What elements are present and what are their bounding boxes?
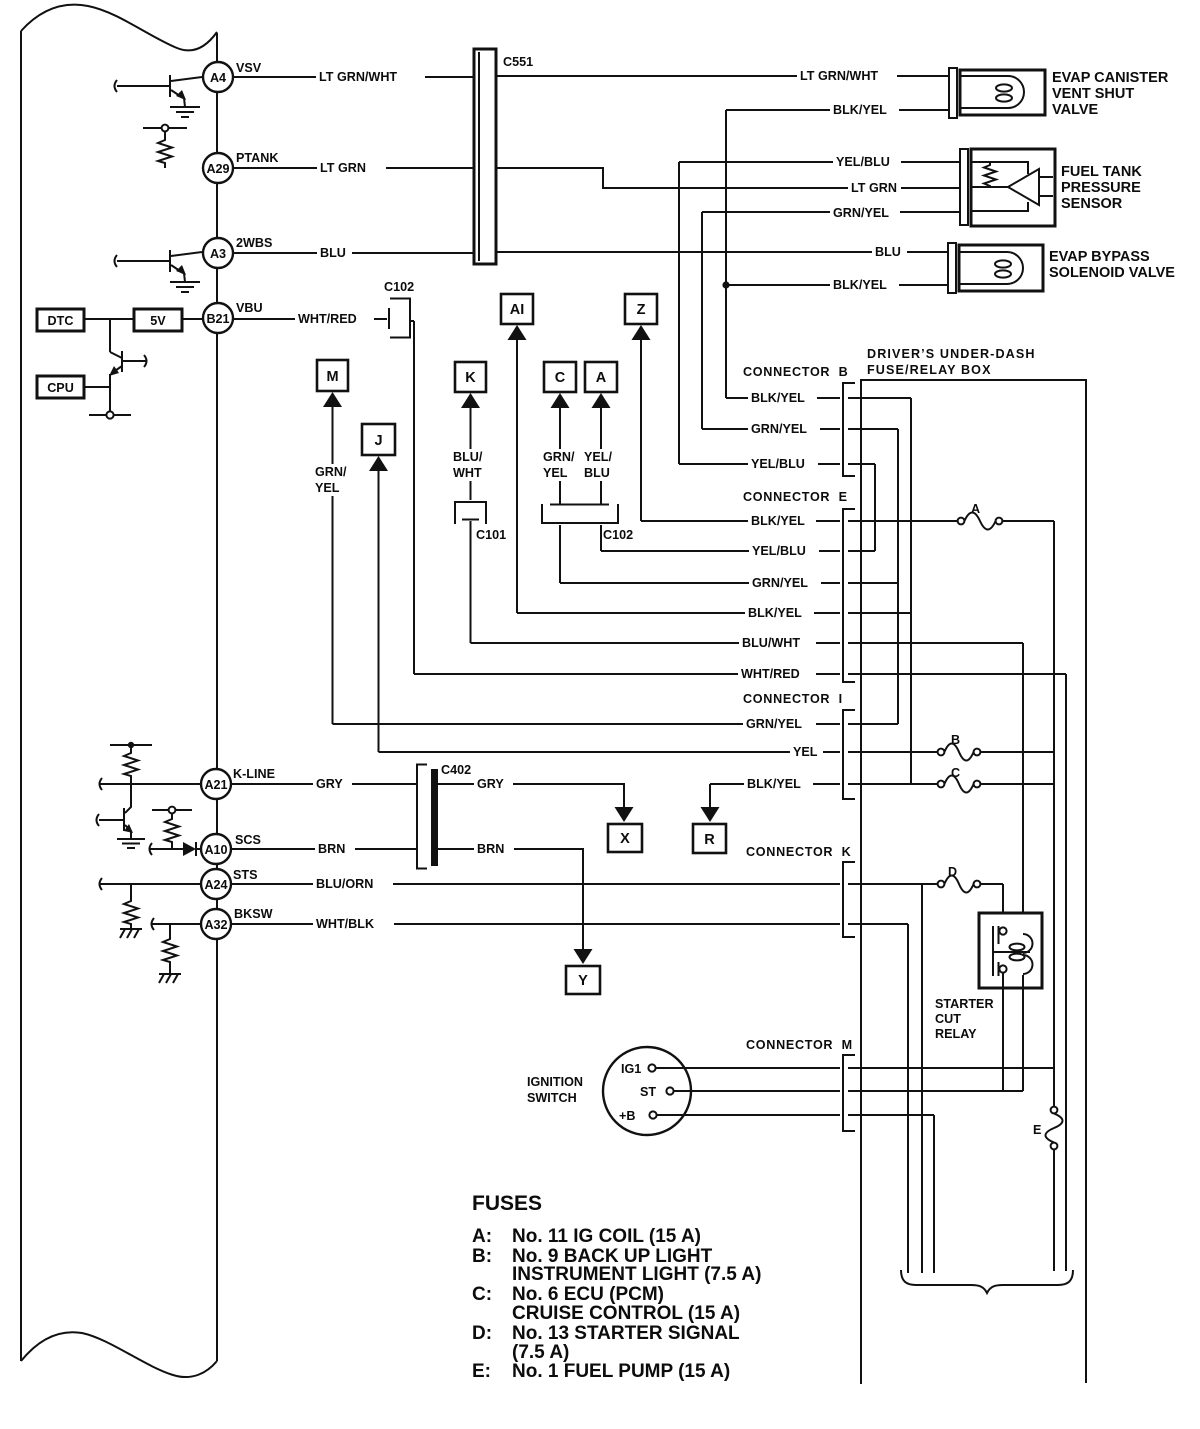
svg-text:B21: B21 bbox=[206, 312, 229, 326]
EVAP canister vent shut valve bbox=[949, 68, 1169, 118]
pin A32 (BKSW) bbox=[201, 907, 273, 939]
wire LT GRN (A29 to C551) bbox=[233, 161, 474, 175]
destination box K bbox=[455, 362, 486, 408]
svg-text:STS: STS bbox=[233, 868, 258, 882]
fuse A bbox=[958, 502, 1054, 530]
wire WHT/BLK (A32 to connector K) bbox=[231, 917, 840, 931]
svg-text:WHT: WHT bbox=[453, 466, 482, 480]
svg-text:A21: A21 bbox=[204, 778, 227, 792]
svg-text:R: R bbox=[704, 832, 715, 848]
connector C102 (lower) bbox=[542, 504, 633, 542]
svg-text:RELAY: RELAY bbox=[935, 1027, 977, 1041]
ECM left border wire bbox=[20, 31, 22, 1361]
ECM bottom torn-edge wave bbox=[21, 1332, 217, 1377]
wire BLK/YEL vertical (x726) bbox=[725, 110, 727, 398]
svg-text:Z: Z bbox=[637, 302, 646, 318]
svg-text:C102: C102 bbox=[384, 280, 414, 294]
destination box X bbox=[608, 807, 642, 852]
wire GRY (A21 to C402) bbox=[231, 777, 417, 791]
svg-text:SCS: SCS bbox=[235, 833, 261, 847]
ground (Q4 emitter) bbox=[117, 839, 145, 848]
svg-text:CONNECTOR B: CONNECTOR B bbox=[743, 365, 848, 379]
wire BLU/ORN (A24 to connector K) bbox=[231, 877, 840, 891]
wire IG1 row bbox=[656, 1067, 1054, 1069]
5V regulator box bbox=[134, 309, 182, 331]
svg-text:YEL/BLU: YEL/BLU bbox=[752, 544, 806, 558]
svg-text:K-LINE: K-LINE bbox=[233, 767, 275, 781]
wire CPU to node bbox=[84, 386, 110, 388]
svg-text:K: K bbox=[465, 370, 476, 386]
svg-text:SENSOR: SENSOR bbox=[1061, 196, 1123, 212]
svg-text:GRN/YEL: GRN/YEL bbox=[751, 422, 807, 436]
wire GRN/YEL chain vertical (x898) bbox=[897, 429, 899, 724]
wire LT GRN (C551 to sensor, stepped) bbox=[496, 168, 962, 195]
wire BLK/YEL (Z down to fuse A row) bbox=[640, 338, 642, 521]
svg-text:FUEL TANK: FUEL TANK bbox=[1061, 164, 1142, 180]
ground (Q2 emitter) bbox=[170, 282, 200, 292]
wire GRN/YEL (connector B row) bbox=[702, 422, 898, 436]
svg-text:CONNECTOR I: CONNECTOR I bbox=[743, 692, 843, 706]
svg-text:C: C bbox=[555, 370, 566, 386]
wire branch down from DTC line bbox=[109, 319, 111, 352]
svg-text:IG1: IG1 bbox=[621, 1062, 641, 1076]
svg-text:D:: D: bbox=[472, 1323, 492, 1344]
connector C402 bbox=[417, 763, 471, 869]
pin B21 (VBU) bbox=[203, 301, 263, 333]
svg-text:A:: A: bbox=[472, 1226, 492, 1247]
wire BLU/WHT (C101 down to connector E row) bbox=[470, 546, 472, 643]
destination box AI bbox=[501, 294, 533, 340]
DRIVER'S UNDER-DASH FUSE/RELAY BOX title bbox=[867, 347, 1036, 377]
wire BLK/YEL (AI down to connector E row) bbox=[516, 338, 518, 613]
svg-text:DTC: DTC bbox=[48, 314, 74, 328]
wire GRN/YEL (connector E row) bbox=[560, 576, 898, 590]
destination box M bbox=[317, 360, 348, 407]
wire BLU/ORN (into box, fuse D feed) bbox=[848, 883, 937, 885]
svg-text:J: J bbox=[374, 433, 382, 449]
wire BKSW row bbox=[152, 918, 202, 930]
fuse C bbox=[938, 766, 1054, 793]
fuse B bbox=[938, 733, 1054, 761]
svg-text:YEL: YEL bbox=[315, 481, 340, 495]
pin A4 (VSV) bbox=[203, 61, 262, 92]
svg-text:WHT/RED: WHT/RED bbox=[298, 312, 357, 326]
wire BLK/YEL (vent shut valve) bbox=[726, 103, 949, 117]
destination box Z bbox=[625, 294, 657, 340]
svg-text:FUSES: FUSES bbox=[472, 1192, 542, 1215]
svg-text:GRY: GRY bbox=[477, 777, 504, 791]
svg-text:YEL/: YEL/ bbox=[584, 450, 612, 464]
svg-text:DRIVER’S UNDER-DASH: DRIVER’S UNDER-DASH bbox=[867, 347, 1036, 361]
transistor Q1 (VSV driver) bbox=[115, 75, 203, 107]
svg-text:VSV: VSV bbox=[236, 61, 262, 75]
fuel tank pressure sensor bbox=[960, 149, 1142, 226]
svg-text:C102: C102 bbox=[603, 528, 633, 542]
wire BLK/YEL (connector I row, fuse C feed, to R) bbox=[710, 777, 937, 808]
svg-text:GRY: GRY bbox=[316, 777, 343, 791]
wire YEL/BLU vertical (x679) bbox=[678, 162, 680, 464]
CPU box bbox=[37, 376, 84, 398]
ECM top torn-edge wave bbox=[21, 5, 217, 51]
svg-text:LT GRN: LT GRN bbox=[320, 161, 366, 175]
transistor Q3 (backup power) bbox=[109, 351, 147, 412]
wire GRN/YEL (connector I row) bbox=[333, 717, 899, 731]
wire fuse D output to relay bbox=[1002, 884, 1004, 928]
wire LT GRN/WHT (A4 to C551) bbox=[233, 70, 474, 84]
wire WHT/BLK (into box) bbox=[848, 923, 908, 925]
svg-text:No. 11 IG COIL (15 A): No. 11 IG COIL (15 A) bbox=[512, 1226, 701, 1247]
wire YEL (connector I row, fuse B feed) bbox=[379, 745, 938, 759]
pin A21 (K-LINE) bbox=[201, 767, 275, 799]
svg-text:BLK/YEL: BLK/YEL bbox=[751, 514, 805, 528]
chassis ground (STS) bbox=[120, 929, 142, 938]
svg-text:YEL: YEL bbox=[793, 745, 818, 759]
svg-text:Y: Y bbox=[578, 973, 588, 989]
wire GRN/YEL (sensor) bbox=[702, 206, 962, 220]
svg-text:BLU/: BLU/ bbox=[453, 450, 483, 464]
wire BLU (A3 to C551) bbox=[233, 246, 474, 260]
wire YEL/BLU chain vertical (x875) bbox=[874, 464, 876, 551]
svg-text:CONNECTOR E: CONNECTOR E bbox=[743, 490, 848, 504]
connector C101 bbox=[455, 502, 506, 546]
wire WHT/RED vertical (x1066) bbox=[1065, 674, 1067, 1271]
wire LT GRN/WHT (C551 to valve) bbox=[496, 69, 949, 83]
connector K bracket bbox=[843, 862, 855, 937]
svg-text:CUT: CUT bbox=[935, 1012, 961, 1026]
resistor R2 (K-LINE pull-up) with junction dot bbox=[110, 742, 152, 784]
wire GRN/YEL (C102 to connector E row) bbox=[559, 525, 561, 583]
transistor Q4 (K-LINE) bbox=[97, 784, 134, 839]
chassis ground (BKSW) bbox=[159, 974, 181, 983]
connector E bracket bbox=[843, 509, 855, 682]
ECM/PCM left boundary (torn edge) bbox=[21, 5, 217, 1377]
fuse/relay box outline bbox=[861, 380, 1086, 1384]
ECM pin column wire bbox=[216, 33, 218, 1361]
svg-text:SWITCH: SWITCH bbox=[527, 1091, 577, 1105]
svg-text:A10: A10 bbox=[204, 843, 227, 857]
svg-text:BLK/YEL: BLK/YEL bbox=[833, 103, 887, 117]
svg-text:A29: A29 bbox=[206, 162, 229, 176]
svg-text:A4: A4 bbox=[210, 71, 226, 85]
wire GRN/YEL vertical (x702) bbox=[701, 212, 703, 429]
svg-text:WHT/BLK: WHT/BLK bbox=[316, 917, 374, 931]
svg-text:No. 6 ECU (PCM): No. 6 ECU (PCM) bbox=[512, 1284, 664, 1305]
fuse E bbox=[1033, 1107, 1063, 1150]
brace (to other circuits) bbox=[901, 1270, 1073, 1293]
connector C102 half (WHT/RED) bbox=[384, 280, 414, 338]
wire SCS row bbox=[150, 843, 185, 855]
wire WHT/RED vertical down to connector E bbox=[413, 321, 415, 674]
svg-text:No. 13 STARTER SIGNAL: No. 13 STARTER SIGNAL bbox=[512, 1323, 740, 1344]
svg-text:VENT SHUT: VENT SHUT bbox=[1052, 86, 1134, 102]
wire WHT/RED (connector E row) bbox=[414, 667, 1066, 681]
wire BLK/YEL chain vertical (x911) bbox=[910, 398, 912, 784]
svg-text:GRN/YEL: GRN/YEL bbox=[746, 717, 802, 731]
svg-text:No. 1 FUEL PUMP (15 A): No. 1 FUEL PUMP (15 A) bbox=[512, 1361, 730, 1382]
wire +B branch down (x934) bbox=[933, 1115, 935, 1273]
svg-text:VALVE: VALVE bbox=[1052, 102, 1099, 118]
svg-text:YEL/BLU: YEL/BLU bbox=[751, 457, 805, 471]
svg-text:CRUISE CONTROL (15 A): CRUISE CONTROL (15 A) bbox=[512, 1303, 740, 1324]
svg-text:FUSE/RELAY BOX: FUSE/RELAY BOX bbox=[867, 363, 992, 377]
pin A10 (SCS) bbox=[201, 833, 261, 864]
svg-text:C:: C: bbox=[472, 1284, 492, 1305]
wire YEL/BLU (sensor) bbox=[679, 155, 961, 169]
svg-text:IGNITION: IGNITION bbox=[527, 1075, 583, 1089]
ignition switch bbox=[527, 1047, 691, 1135]
svg-text:A32: A32 bbox=[204, 918, 227, 932]
wire GRN/YEL (M to connector I) bbox=[315, 405, 347, 724]
resistor R5 (BKSW) bbox=[163, 924, 177, 974]
svg-text:5V: 5V bbox=[150, 314, 166, 328]
EVAP bypass solenoid valve bbox=[948, 243, 1175, 293]
wire WHT/BLK down (x908) bbox=[907, 924, 909, 1273]
svg-text:CONNECTOR M: CONNECTOR M bbox=[746, 1038, 853, 1052]
svg-text:INSTRUMENT LIGHT (7.5 A): INSTRUMENT LIGHT (7.5 A) bbox=[512, 1264, 761, 1285]
svg-text:LT GRN/WHT: LT GRN/WHT bbox=[800, 69, 878, 83]
connector C551 bbox=[474, 49, 533, 264]
svg-text:C551: C551 bbox=[503, 55, 533, 69]
pin A29 (PTANK) bbox=[203, 151, 278, 183]
svg-text:BRN: BRN bbox=[477, 842, 504, 856]
wire BLK/YEL (bypass valve) with junction bbox=[722, 278, 948, 292]
wire ST row bbox=[674, 1090, 1023, 1092]
svg-text:2WBS: 2WBS bbox=[236, 236, 272, 250]
svg-text:BLU: BLU bbox=[584, 466, 610, 480]
svg-text:PTANK: PTANK bbox=[236, 151, 278, 165]
svg-text:LT GRN: LT GRN bbox=[851, 181, 897, 195]
destination box Y bbox=[566, 949, 600, 994]
fuse D bbox=[938, 865, 1003, 893]
svg-text:A3: A3 bbox=[210, 247, 226, 261]
transistor Q2 (2WBS driver) bbox=[115, 250, 203, 282]
connector B bracket bbox=[843, 383, 855, 476]
svg-text:BLK/YEL: BLK/YEL bbox=[747, 777, 801, 791]
svg-text:YEL/BLU: YEL/BLU bbox=[836, 155, 890, 169]
DTC box bbox=[37, 309, 84, 331]
starter cut relay bbox=[979, 913, 1042, 988]
svg-text:WHT/RED: WHT/RED bbox=[741, 667, 800, 681]
connector I bracket bbox=[843, 710, 855, 799]
svg-text:A24: A24 bbox=[204, 878, 227, 892]
svg-text:SOLENOID VALVE: SOLENOID VALVE bbox=[1049, 265, 1175, 281]
svg-text:YEL: YEL bbox=[543, 466, 568, 480]
wire YEL (J to connector I) bbox=[378, 469, 380, 752]
wire BLU/WHT (K to C101) bbox=[453, 406, 483, 500]
wire BLU/WHT to relay coil (x1023) bbox=[1022, 643, 1024, 934]
destination box R bbox=[693, 807, 726, 853]
wire 5V to B21 bbox=[182, 318, 203, 320]
wire BLK/YEL (connector B row) bbox=[726, 391, 911, 405]
wire BLU (C551 to bypass valve) bbox=[496, 245, 948, 259]
wire WHT/RED (B21 to C102) bbox=[233, 312, 387, 326]
destination box A bbox=[585, 362, 617, 408]
svg-text:PRESSURE: PRESSURE bbox=[1061, 180, 1141, 196]
svg-text:ST: ST bbox=[640, 1085, 656, 1099]
destination box C bbox=[544, 362, 576, 408]
svg-text:VBU: VBU bbox=[236, 301, 263, 315]
resistor R1 (PTANK pull-up) bbox=[143, 125, 187, 168]
wire BRN (C402 to Y) bbox=[438, 842, 583, 950]
wire GRN/YEL (C to C102) bbox=[543, 406, 575, 504]
svg-text:BLU/ORN: BLU/ORN bbox=[316, 877, 373, 891]
svg-text:C402: C402 bbox=[441, 763, 471, 777]
connector M bracket bbox=[843, 1055, 855, 1131]
wire K-LINE row bbox=[100, 778, 202, 790]
svg-text:GRN/: GRN/ bbox=[315, 465, 347, 479]
svg-text:(7.5 A): (7.5 A) bbox=[512, 1342, 569, 1363]
svg-text:STARTER: STARTER bbox=[935, 997, 994, 1011]
svg-text:EVAP CANISTER: EVAP CANISTER bbox=[1052, 70, 1169, 86]
svg-text:CPU: CPU bbox=[47, 381, 74, 395]
wire relay switch to ST row bbox=[1002, 972, 1004, 1091]
node: switch contact with open circle bbox=[89, 411, 131, 418]
wire relay coil to ST row bbox=[1022, 975, 1024, 1091]
svg-text:BLK/YEL: BLK/YEL bbox=[748, 606, 802, 620]
svg-text:BKSW: BKSW bbox=[234, 907, 273, 921]
wire YEL/BLU (connector E row) bbox=[601, 544, 875, 558]
wire GRY (C402 to X) bbox=[438, 777, 624, 808]
wire DTC to 5V bbox=[84, 318, 134, 320]
svg-text:BRN: BRN bbox=[318, 842, 345, 856]
resistor R3 (SCS pull-up) bbox=[152, 807, 192, 849]
pin A3 (2WBS) bbox=[203, 236, 272, 268]
FUSES legend bbox=[472, 1192, 761, 1382]
svg-text:GRN/YEL: GRN/YEL bbox=[752, 576, 808, 590]
wire YEL/BLU (A to C102) bbox=[584, 406, 612, 504]
svg-text:BLU: BLU bbox=[875, 245, 901, 259]
resistor R4 (STS) bbox=[124, 884, 138, 929]
svg-text:+B: +B bbox=[619, 1109, 635, 1123]
svg-text:E: E bbox=[1033, 1123, 1041, 1137]
svg-text:GRN/YEL: GRN/YEL bbox=[833, 206, 889, 220]
svg-text:BLK/YEL: BLK/YEL bbox=[751, 391, 805, 405]
wire STS row bbox=[100, 878, 202, 890]
svg-text:EVAP BYPASS: EVAP BYPASS bbox=[1049, 249, 1150, 265]
ground (Q1 emitter) bbox=[170, 107, 200, 117]
svg-text:C101: C101 bbox=[476, 528, 506, 542]
wire BLU/WHT (connector E row) bbox=[471, 636, 1024, 650]
wire BRN (A10 to C402) bbox=[231, 842, 417, 856]
svg-text:E:: E: bbox=[472, 1361, 491, 1382]
diode D1 (SCS) bbox=[183, 842, 201, 856]
wire BLK/YEL (connector E row, fuse A feed) bbox=[641, 514, 957, 528]
STARTER CUT RELAY label bbox=[935, 997, 994, 1041]
wire YEL/BLU (connector B row) bbox=[679, 457, 875, 471]
wire +B row bbox=[657, 1114, 934, 1116]
svg-text:M: M bbox=[326, 369, 338, 385]
destination box J bbox=[362, 424, 395, 471]
wire BLU/ORN branch down (x922) bbox=[921, 884, 923, 1273]
svg-text:LT GRN/WHT: LT GRN/WHT bbox=[319, 70, 397, 84]
wire fuse E down to brace bbox=[1053, 1150, 1055, 1271]
svg-text:X: X bbox=[620, 831, 630, 847]
svg-text:BLK/YEL: BLK/YEL bbox=[833, 278, 887, 292]
svg-text:GRN/: GRN/ bbox=[543, 450, 575, 464]
svg-text:BLU/WHT: BLU/WHT bbox=[742, 636, 800, 650]
pin A24 (STS) bbox=[201, 868, 258, 899]
svg-text:AI: AI bbox=[510, 302, 525, 318]
svg-text:A: A bbox=[596, 370, 607, 386]
svg-text:BLU: BLU bbox=[320, 246, 346, 260]
wire IG1 feed vertical (x1054, fuses A/B/C to E) bbox=[1053, 521, 1055, 1106]
wire BLK/YEL (connector E row 2) bbox=[517, 606, 911, 620]
svg-text:B:: B: bbox=[472, 1246, 492, 1267]
wire YEL/BLU (C102 to connector E row) bbox=[600, 525, 602, 551]
svg-text:CONNECTOR K: CONNECTOR K bbox=[746, 845, 851, 859]
